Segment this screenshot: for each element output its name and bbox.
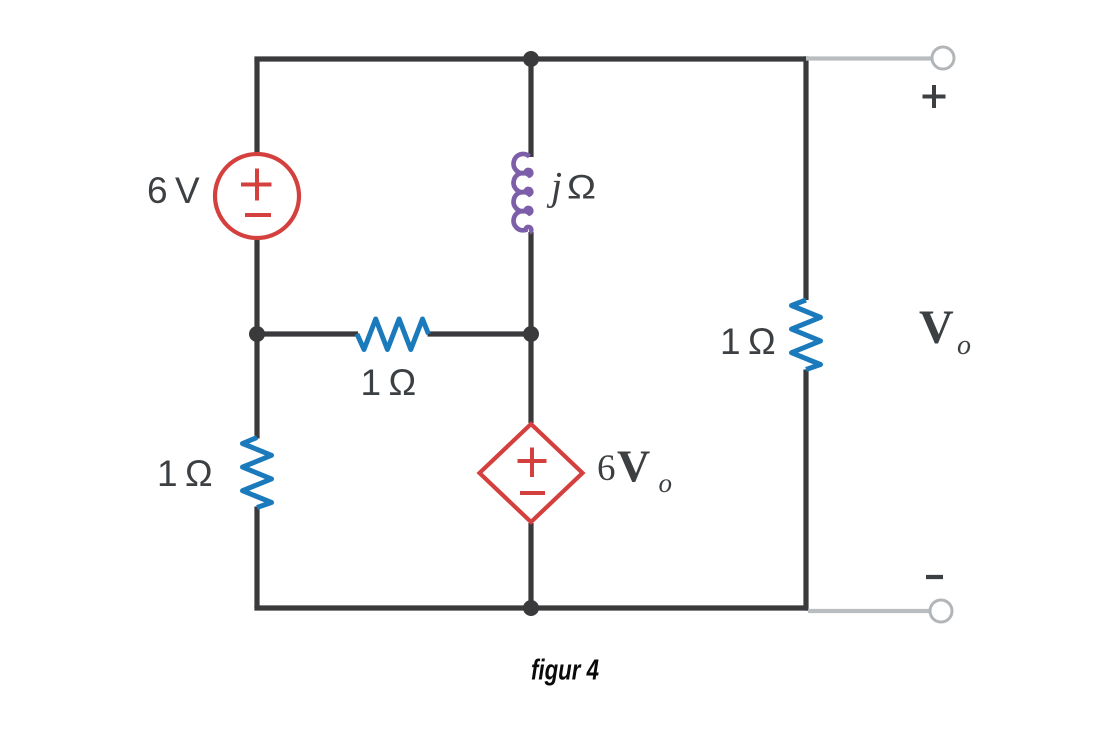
wire: middle horizontal branch left lead — [257, 331, 358, 336]
wire: middle column (center node to diamond) — [528, 334, 533, 423]
voltage source V1: minus sign — [245, 213, 271, 217]
node dot: top middle junction — [523, 51, 539, 67]
svg-text:Ω: Ω — [567, 169, 596, 207]
wire: bottom rail — [257, 605, 808, 608]
wire: middle column (diamond to bottom node) — [528, 523, 533, 608]
wire: middle horizontal branch right lead — [428, 331, 532, 336]
svg-text:1 Ω: 1 Ω — [157, 453, 213, 494]
svg-text:V: V — [919, 301, 954, 354]
svg-text:o: o — [659, 468, 673, 498]
terminal: bottom-right open circle — [930, 600, 952, 622]
svg-text:o: o — [957, 330, 971, 361]
dependent source D1: plus sign — [518, 448, 547, 478]
node dot: center junction — [523, 326, 539, 342]
output marker minus — [926, 575, 943, 579]
svg-text:figur 4: figur 4 — [531, 655, 599, 687]
inductor L1 j-ohm coil — [514, 154, 532, 233]
wire: bottom-right gray lead — [808, 609, 930, 613]
resistor R2 1ohm horizontal zigzag — [357, 319, 429, 350]
svg-text:6: 6 — [597, 448, 616, 489]
wire: top rail — [257, 59, 806, 62]
wire: top-right gray lead — [806, 56, 932, 60]
wire: left rail (source to middle node) — [254, 237, 259, 334]
svg-text:j: j — [546, 164, 562, 209]
svg-text:1 Ω: 1 Ω — [720, 321, 776, 362]
dependent source D1: minus sign — [520, 491, 545, 495]
terminal: top-right open circle — [932, 47, 954, 69]
wire: left rail (middle node to resistor R1) — [254, 334, 259, 439]
wire: right rail lower — [805, 370, 806, 609]
node dot: bottom middle junction — [523, 600, 539, 616]
output marker plus — [923, 85, 946, 108]
svg-text:6 V: 6 V — [147, 170, 200, 211]
voltage source V1: plus sign — [241, 169, 272, 201]
dependent source D1 6Vo: red diamond — [480, 424, 583, 522]
svg-text:1 Ω: 1 Ω — [361, 362, 417, 403]
svg-text:V: V — [617, 441, 650, 492]
wire: left rail (R1 to bottom corner) — [254, 507, 259, 609]
resistor R1 1ohm left vertical zigzag — [243, 438, 272, 508]
wire: middle column upper (top node to inductor) — [528, 59, 533, 157]
voltage source V1 6V: red circle — [215, 154, 299, 238]
wire: right rail upper — [803, 59, 806, 300]
resistor R3 1ohm right vertical zigzag — [792, 300, 821, 370]
wire: left rail upper (top corner to source) — [254, 59, 259, 155]
node dot: left middle junction — [249, 326, 265, 342]
wire: middle column (inductor to center node) — [528, 232, 533, 334]
